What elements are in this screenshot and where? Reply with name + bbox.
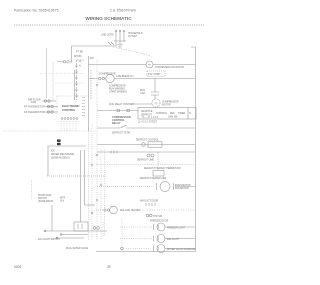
svg-text:CONTROL: CONTROL	[62, 108, 76, 112]
svg-text:(SOME MDLS): (SOME MDLS)	[38, 201, 54, 203]
svg-text:FAN: FAN	[31, 100, 36, 104]
connector pin circles scattered	[76, 65, 102, 214]
L feed stub to rail	[57, 61, 63, 63]
freezer light wire	[120, 226, 152, 228]
connector blocks dark	[57, 140, 61, 142]
adaptive defrost control box	[138, 108, 196, 120]
rung compressor line	[89, 78, 196, 80]
svg-text:COIL RELAY CONTACT: COIL RELAY CONTACT	[109, 103, 134, 106]
fresh food light	[157, 235, 165, 243]
rail x53 to thermistor rows	[52, 62, 54, 100]
rail x91 dashes	[90, 70, 92, 99]
svg-text:PTC START: PTC START	[148, 73, 161, 76]
node connector pair on L feed	[63, 61, 65, 63]
evaporator fan wires	[97, 186, 155, 188]
mid light wire	[120, 238, 152, 240]
svg-text:TIMER: TIMER	[178, 113, 185, 115]
defrost limiter vertical	[157, 152, 159, 171]
svg-text:Publication No. 5995419575: Publication No. 5995419575	[14, 9, 59, 13]
svg-text:(SOME MODELS): (SOME MODELS)	[51, 158, 70, 160]
defrost thermostat pair	[147, 154, 150, 157]
compressor rung connector pair	[99, 77, 101, 79]
svg-text:LINE BREAK O.L.: LINE BREAK O.L.	[116, 75, 135, 78]
ff thermistor wire	[45, 106, 58, 108]
svg-text:WH: WH	[90, 58, 94, 60]
svg-text:DEFROST CONTROL: DEFROST CONTROL	[136, 140, 160, 142]
solid verticals lower mid	[81, 150, 85, 222]
ground symbol	[118, 45, 123, 48]
svg-text:DEFROST TSTAT: DEFROST TSTAT	[112, 132, 131, 135]
small switch row y215	[146, 214, 149, 217]
line cord wire N	[123, 32, 125, 43]
dotted board boundary upper	[40, 73, 85, 75]
ice maker box	[48, 146, 86, 176]
relay terminal squares	[117, 109, 119, 111]
freezer light	[157, 223, 165, 231]
svg-text:WTR: WTR	[60, 198, 66, 200]
svg-text:ADAPTIVE: ADAPTIVE	[141, 110, 153, 113]
svg-text:RUN WINDING: RUN WINDING	[109, 89, 125, 91]
compressor overload	[106, 74, 114, 82]
dispenser module box	[74, 222, 88, 231]
defrost rung component	[148, 142, 162, 147]
svg-text:LINE CORD: LINE CORD	[101, 35, 114, 37]
line cord wire L	[115, 32, 117, 42]
mullion heater connector pair	[104, 209, 106, 211]
line cord wire ground	[119, 32, 121, 45]
svg-text:OUTLET: OUTLET	[128, 36, 138, 38]
svg-text:MAKER MECHANISM: MAKER MECHANISM	[51, 153, 74, 156]
svg-text:DEF: DEF	[170, 113, 175, 115]
svg-text:ICE: ICE	[51, 151, 55, 153]
mullion heater wire right	[140, 209, 196, 211]
lower left riser	[51, 205, 53, 231]
svg-text:MOTOR: MOTOR	[162, 105, 171, 107]
svg-text:VLV: VLV	[60, 201, 65, 203]
svg-text:WIRING SCHEMATIC: WIRING SCHEMATIC	[85, 16, 132, 21]
svg-text:HOUSEHOLD: HOUSEHOLD	[128, 33, 143, 35]
svg-text:COMPRESSOR: COMPRESSOR	[162, 102, 179, 104]
lower left wire dots	[44, 230, 46, 232]
svg-text:RELAY: RELAY	[112, 121, 121, 125]
svg-text:CONDENSER FAN MOTOR: CONDENSER FAN MOTOR	[155, 66, 184, 69]
svg-text:6206: 6206	[14, 265, 21, 269]
svg-text:HTR SW: HTR SW	[153, 216, 163, 218]
right bus N	[191, 47, 196, 252]
svg-text:FZ THERMISTOR: FZ THERMISTOR	[24, 110, 45, 114]
dotted board boundary lower	[55, 82, 85, 84]
evaporator fan motor	[160, 182, 170, 192]
svg-text:CAP: CAP	[140, 92, 145, 95]
svg-text:DEFROST LIMIT: DEFROST LIMIT	[137, 160, 155, 162]
compressor control relay dark label	[112, 115, 131, 125]
svg-text:WATER VALVE SOLENOID: WATER VALVE SOLENOID	[167, 248, 196, 251]
compressor motor lead	[130, 103, 152, 105]
rail x88.5	[88, 56, 90, 131]
svg-text:COMPRESSOR: COMPRESSOR	[109, 86, 126, 88]
svg-text:WH-BK: WH-BK	[74, 56, 82, 58]
svg-text:DOOR AJAR: DOOR AJAR	[38, 194, 52, 197]
faint fold line	[46, 48, 48, 98]
svg-text:FAN MOTOR: FAN MOTOR	[175, 187, 189, 190]
control pin rail x76.5	[77, 60, 85, 100]
svg-text:SWITCH: SWITCH	[38, 198, 47, 200]
mullion heater wire left	[96, 209, 104, 211]
rung y152	[97, 151, 196, 153]
svg-text:DUAL WATER VALVE: DUAL WATER VALVE	[66, 247, 89, 250]
svg-text:DEFROST HEATER THERMOSTAT: DEFROST HEATER THERMOSTAT	[144, 167, 181, 170]
water valve solenoid	[157, 245, 165, 253]
rung 152 connector bars	[111, 151, 117, 154]
mid light switch	[153, 236, 158, 242]
line cord body	[108, 41, 126, 45]
dashed boundary y164.5	[96, 164, 196, 166]
water valve wire	[126, 248, 150, 250]
line cord dashed swoop to outlet	[113, 47, 151, 57]
svg-text:← AUX LIGHT SWITCH: ← AUX LIGHT SWITCH	[35, 238, 60, 241]
svg-text:EVAPORATOR: EVAPORATOR	[175, 184, 191, 187]
svg-text:L1 4 3 2 1 N TEST: L1 4 3 2 1 N TEST	[138, 122, 158, 124]
svg-text:MULLION HEATER: MULLION HEATER	[120, 209, 140, 212]
evaporator fan brackets	[156, 183, 174, 190]
L feed wire to left	[70, 41, 116, 62]
svg-text:START WINDING: START WINDING	[109, 91, 127, 94]
dotted separator line	[14, 24, 204, 26]
mullion heater	[110, 206, 118, 214]
svg-text:39: 39	[107, 265, 111, 269]
svg-text:FREEZER LIGHT: FREEZER LIGHT	[167, 228, 186, 230]
rung y144.5 defrost control	[97, 144, 196, 146]
rung y128	[97, 125, 196, 128]
PTC starter dashed box	[147, 71, 165, 77]
svg-text:CAM SW: CAM SW	[168, 116, 178, 119]
defrost heater box	[153, 171, 164, 177]
condenser fan motor	[146, 61, 153, 68]
svg-text:COMPRESSOR: COMPRESSOR	[99, 74, 116, 76]
lower left wire rows	[44, 231, 107, 238]
dispenser connector pair	[93, 227, 96, 230]
air flow fan wire	[42, 100, 56, 102]
svg-text:O——O 1 2 3 4: O——O 1 2 3 4	[142, 117, 159, 119]
freezer light switch	[153, 224, 158, 230]
tiny text labels	[24, 33, 196, 251]
water valve switch	[153, 246, 158, 252]
svg-text:CU-6560PFW0: CU-6560PFW0	[110, 9, 136, 13]
run capacitor	[151, 79, 159, 100]
control block right pin rows	[82, 98, 85, 116]
svg-text:BK: BK	[80, 52, 84, 54]
svg-text:RUN: RUN	[140, 90, 145, 92]
svg-text:AIR DUCT DOOR: AIR DUCT DOOR	[140, 200, 159, 203]
rail x74.5	[74, 70, 76, 100]
elbow at y205	[85, 204, 96, 206]
harness dashed verticals	[3, 60, 122, 246]
rung condenser fan	[89, 64, 196, 66]
electronic control block	[61, 98, 85, 120]
fz thermistor wire	[45, 111, 58, 113]
dashed boundary left	[3, 130, 96, 132]
line cord plug pins	[115, 30, 117, 32]
svg-text:FML LIGHT: FML LIGHT	[167, 239, 180, 241]
svg-text:FREEZER DOOR: FREEZER DOOR	[150, 221, 169, 223]
rung relay coil	[97, 110, 138, 112]
svg-text:CONTROL: CONTROL	[156, 113, 168, 115]
bottom rail	[96, 251, 196, 253]
svg-text:FF THERMISTOR: FF THERMISTOR	[24, 105, 45, 109]
svg-text:DEFROST HEATER ASM: DEFROST HEATER ASM	[140, 177, 166, 180]
defrost limit switch pairs	[146, 203, 155, 206]
compressor motor	[152, 99, 160, 107]
